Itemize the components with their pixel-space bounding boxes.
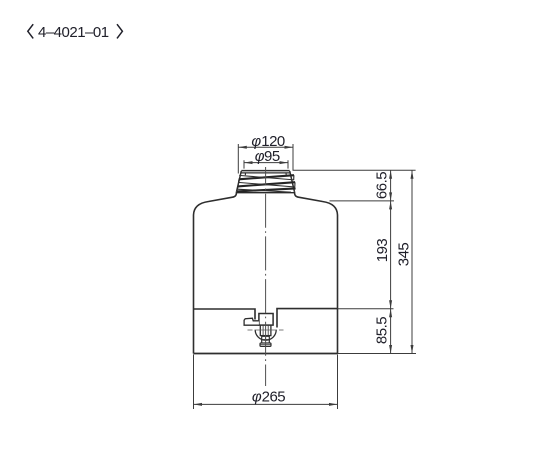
dim phi265 line: [194, 403, 338, 405]
neck collar: [236, 192, 295, 194]
spigot flange: [260, 343, 271, 346]
screw thread return lines: [237, 175, 295, 192]
screw thread ridges: [237, 175, 296, 191]
spigot nozzle: [262, 340, 270, 343]
recess right edge: [277, 309, 338, 328]
dim phi265 extension lines: [193, 355, 195, 410]
dim phi120 line: [238, 146, 293, 148]
svg-text:193: 193: [374, 239, 391, 263]
dim 345 vline: [411, 170, 413, 353]
dim phi95 extension lines: [243, 160, 245, 168]
svg-text:265: 265: [262, 389, 286, 406]
bottom extension line: [338, 353, 417, 355]
svg-text:4–4021–01: 4–4021–01: [38, 24, 109, 41]
shoulder extension line: [330, 200, 395, 202]
catalog number label: [28, 24, 123, 41]
spigot stem lines: [263, 325, 268, 335]
svg-text:φ: φ: [252, 389, 262, 406]
centerline vertical: [265, 167, 267, 386]
neck sides: [237, 171, 295, 192]
bottle bottom line: [194, 353, 338, 355]
dim phi95 line: [244, 162, 288, 164]
spigot valve body: [259, 314, 273, 326]
spigot horizontal centerline: [248, 329, 284, 331]
bottle body outline: [194, 192, 338, 354]
spigot handle: [244, 318, 259, 325]
spigot sleeve: [260, 325, 271, 335]
recess extension line: [338, 308, 394, 310]
svg-text:345: 345: [396, 243, 413, 267]
svg-text:85.5: 85.5: [373, 317, 390, 344]
neck rim: [241, 170, 289, 172]
dim vline 66.5/193/85.5: [390, 170, 392, 353]
spigot bowl: [255, 330, 276, 340]
svg-text:66.5: 66.5: [373, 172, 390, 199]
recess left edge: [194, 309, 256, 320]
thread edge notches: [238, 173, 296, 189]
spigot plug: [262, 336, 270, 339]
svg-text:95: 95: [264, 148, 280, 165]
dim phi120 extension lines: [237, 144, 239, 174]
